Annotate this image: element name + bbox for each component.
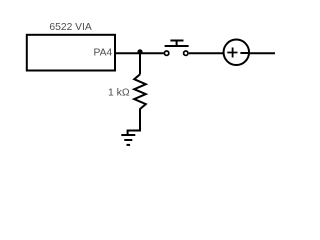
svg-text:6522 VIA: 6522 VIA	[49, 22, 91, 33]
minus sign	[240, 52, 248, 54]
resistor R1 zigzag	[134, 74, 146, 109]
svg-text:PA4: PA4	[93, 48, 112, 59]
switch stem	[176, 41, 178, 47]
voltage source V1	[224, 40, 250, 66]
junction node dot	[137, 49, 142, 54]
ground symbol	[121, 135, 135, 145]
wire resistor to ground jog	[128, 109, 140, 135]
svg-text:1 kΩ: 1 kΩ	[108, 88, 130, 99]
wire PA4 to switch	[115, 52, 164, 54]
wire source to supply	[249, 52, 275, 54]
switch terminal right	[184, 51, 188, 55]
pushbutton switch SW1	[164, 41, 188, 56]
wire junction down to resistor	[139, 52, 141, 74]
IC box U1 (6522 VIA)	[27, 35, 115, 71]
switch terminal left	[164, 51, 168, 55]
wire switch to source	[189, 52, 224, 54]
plus sign	[227, 48, 237, 58]
switch cap	[170, 40, 183, 42]
switch bar	[165, 45, 189, 47]
